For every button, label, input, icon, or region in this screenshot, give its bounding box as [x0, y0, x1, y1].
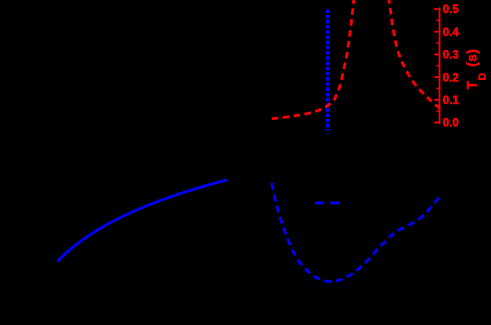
- blue dotted vertical line (critical gain marker): [326, 10, 330, 131]
- red major tick 0.1: [434, 99, 438, 101]
- red major tick 0.5: [434, 8, 438, 10]
- svg-text:0.0: 0.0: [443, 118, 459, 130]
- red dashed curve right branch (T_D descending): [389, 0, 441, 109]
- red minor tick: [436, 110, 438, 112]
- red minor tick: [436, 65, 438, 67]
- solid blue curve (settling time, P controller): [57, 180, 227, 262]
- red minor tick: [436, 42, 438, 44]
- svg-text:0.4: 0.4: [443, 27, 460, 39]
- red right axis spine: [439, 8, 441, 125]
- red minor tick: [436, 87, 438, 89]
- svg-text:0.1: 0.1: [443, 95, 460, 107]
- red major tick 0.4: [434, 31, 438, 33]
- legend dashed-line sample (blue): [315, 202, 339, 205]
- svg-text:0.3: 0.3: [443, 50, 459, 62]
- red dashed curve left branch (T_D rising to asymptote): [272, 0, 354, 119]
- dashed blue U curve (settling time, PD controller): [272, 183, 440, 282]
- red major tick 0.0: [434, 122, 438, 124]
- red major tick 0.3: [434, 53, 438, 55]
- red major tick 0.2: [434, 76, 438, 78]
- svg-text:0.5: 0.5: [443, 4, 460, 16]
- svg-text:0.2: 0.2: [443, 72, 459, 84]
- red minor tick: [436, 19, 438, 21]
